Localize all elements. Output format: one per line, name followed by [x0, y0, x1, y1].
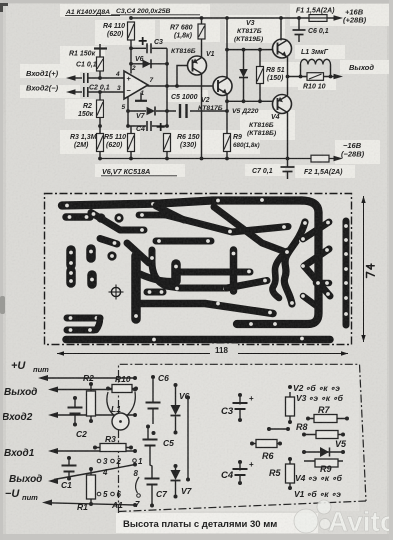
wire	[239, 409, 241, 418]
wire	[131, 47, 146, 49]
wire	[90, 469, 92, 504]
pcb trace plus vertical	[230, 250, 238, 291]
pcb trace oval1	[66, 250, 76, 265]
junction	[225, 48, 229, 52]
R9 leads	[304, 460, 343, 462]
wire C6 col	[151, 375, 155, 379]
junction	[129, 16, 133, 20]
V5 leads	[304, 451, 343, 453]
resistor R10 body	[112, 385, 132, 393]
capacitor C5	[143, 439, 158, 441]
pcb trace oval5	[171, 264, 181, 281]
fuse F2	[311, 155, 329, 162]
wire R1 top	[99, 44, 101, 57]
junction	[225, 109, 229, 113]
wire	[288, 76, 308, 78]
junction	[299, 75, 303, 79]
wire	[131, 63, 167, 65]
wire L1 left	[300, 65, 302, 77]
wire	[108, 388, 136, 390]
wire	[54, 414, 135, 416]
capacitor C2	[84, 87, 88, 97]
resistor R3 body	[100, 444, 126, 452]
junction	[129, 157, 133, 161]
caption band	[116, 513, 318, 533]
wire Vyhod2	[48, 478, 58, 484]
junction	[286, 75, 290, 79]
wire	[201, 39, 203, 57]
junction	[98, 157, 102, 161]
junction	[286, 157, 290, 161]
wire	[128, 111, 146, 126]
wire	[201, 18, 203, 24]
pcb trace barB	[156, 238, 211, 245]
capacitor C1	[84, 73, 88, 83]
wire	[287, 57, 289, 77]
resistor R9	[224, 134, 231, 152]
pcb trace top bar	[62, 201, 303, 206]
wire	[99, 92, 101, 100]
junction	[165, 62, 169, 66]
wire -Upit	[42, 500, 52, 506]
wire	[166, 48, 168, 126]
wire	[99, 71, 101, 78]
junction	[165, 157, 169, 161]
wire Vhod2	[48, 412, 58, 418]
wire	[54, 389, 135, 391]
wire	[227, 49, 273, 51]
resistor R6 body	[256, 440, 277, 448]
capacitor C4	[147, 119, 165, 136]
junction	[98, 76, 102, 80]
pcb panel background	[46, 195, 350, 344]
pcb trace oval4	[87, 275, 97, 284]
resistor R9 body	[315, 459, 338, 467]
C3 column	[238, 393, 242, 397]
wire	[68, 460, 70, 467]
resistor R1	[97, 57, 104, 71]
resistor R7 body	[314, 415, 337, 423]
wire	[166, 152, 168, 159]
common bar	[94, 47, 107, 49]
wire input2b	[88, 91, 124, 93]
pcb trace snake1	[284, 222, 305, 304]
wire	[130, 40, 132, 74]
wire top rail	[131, 17, 335, 19]
wire	[190, 110, 227, 112]
junction	[242, 48, 246, 52]
resistor R7	[198, 24, 205, 39]
resistor R4	[128, 22, 135, 40]
wire	[74, 400, 76, 409]
wire	[152, 379, 154, 404]
wire	[226, 18, 228, 78]
long wire	[186, 396, 190, 400]
resistor R5 body	[286, 464, 295, 483]
wire bottom rail	[100, 158, 335, 160]
pcb trace chev up	[303, 222, 329, 239]
left edge blob	[0, 296, 5, 314]
wire C6 stub	[298, 18, 300, 30]
wire C5 top	[147, 428, 149, 441]
pcb trace snake2	[272, 251, 287, 298]
wire	[90, 384, 92, 421]
junction	[200, 157, 204, 161]
junction	[165, 109, 169, 113]
wire	[287, 113, 289, 159]
wire	[44, 377, 135, 379]
resistor R6	[164, 134, 171, 152]
board outline border	[119, 364, 367, 513]
resistor R3	[97, 134, 104, 152]
wire	[54, 465, 135, 480]
capacitor C5	[179, 104, 181, 118]
junction	[225, 99, 229, 103]
C1 column	[67, 456, 71, 460]
junction	[297, 16, 301, 20]
wire	[239, 475, 241, 481]
C2 column	[73, 396, 77, 400]
board panel background	[119, 365, 359, 511]
R5 leads	[289, 459, 291, 488]
pcb trace chev big	[304, 249, 330, 296]
junction	[129, 46, 133, 50]
pcb trace stub	[316, 280, 329, 287]
pcb trace row2r	[139, 212, 166, 219]
R7 leads	[308, 418, 347, 420]
junction	[258, 99, 262, 103]
pcb trace H288	[152, 250, 227, 288]
pcb trace diag2	[91, 213, 144, 231]
junction	[242, 99, 246, 103]
junction	[98, 124, 102, 128]
wire	[187, 399, 189, 478]
pcb trace right frame	[237, 201, 319, 325]
wire +Upit	[38, 375, 48, 381]
V6 column	[174, 383, 178, 387]
pcb trace sweep	[214, 207, 283, 251]
resistor R2	[97, 100, 104, 118]
capacitor C3	[233, 402, 248, 404]
wire C5-C7	[150, 446, 152, 479]
junction	[279, 16, 283, 20]
wire Vhod1	[48, 448, 58, 454]
wire C7 bottom	[287, 172, 289, 180]
junction	[225, 16, 229, 20]
pcb trace H303	[137, 304, 273, 314]
wire	[48, 503, 135, 505]
wire	[68, 472, 70, 478]
pcb trace diag3	[127, 243, 149, 263]
pcb trace oval3	[86, 249, 96, 258]
wire V5 top	[243, 50, 245, 69]
wire	[287, 77, 289, 96]
wire	[226, 152, 228, 159]
transistor V3 KT817B	[273, 39, 292, 58]
pcb pad	[114, 213, 123, 222]
wire V5 bottom	[243, 78, 245, 102]
wire	[175, 387, 177, 405]
transistor V2 KT817B	[213, 77, 232, 96]
pcb trace nub	[100, 239, 117, 245]
wire	[239, 397, 241, 405]
R8 leads	[304, 434, 343, 436]
wire C7 bottom	[151, 485, 153, 505]
wire	[152, 409, 154, 425]
label V2 pins	[288, 385, 292, 389]
corner mark	[0, 3, 8, 12]
wire	[95, 447, 131, 449]
wire C7 stub	[287, 159, 289, 167]
resistor R8 body	[316, 431, 338, 439]
resistor R5	[128, 134, 135, 152]
junction	[165, 124, 169, 128]
wire Vyhod1	[48, 387, 58, 393]
wire	[226, 95, 228, 134]
wire	[128, 110, 146, 112]
transistor V1 KT816B	[188, 56, 207, 75]
resistor R2 body	[87, 391, 96, 416]
wire	[54, 450, 135, 452]
pcb trace cshape link	[96, 318, 100, 330]
wire	[99, 152, 101, 159]
junction	[129, 62, 133, 66]
pcb trace far right	[343, 221, 350, 325]
junction	[165, 84, 169, 88]
dimension 74	[363, 196, 365, 342]
wire	[177, 66, 188, 87]
capacitor C1	[62, 465, 77, 467]
pcb trace cshape bottom	[67, 327, 94, 334]
page edge shading	[0, 0, 393, 3]
chip A1 pins	[97, 459, 101, 463]
wire	[175, 481, 177, 495]
pcb trace bigvert	[131, 256, 141, 319]
wire	[280, 18, 282, 41]
wire	[269, 428, 288, 430]
wire	[127, 97, 129, 112]
pcb trace arm	[140, 274, 176, 281]
wire	[130, 126, 132, 134]
wire	[152, 47, 167, 49]
junction	[329, 75, 333, 79]
diode V7	[147, 107, 156, 116]
fuse F1	[309, 15, 327, 22]
pcb outline border	[45, 194, 352, 345]
junction	[225, 157, 229, 161]
wire	[289, 392, 291, 422]
capacitor C4	[233, 468, 248, 470]
resistor R1 body	[87, 475, 96, 499]
junction	[98, 90, 102, 94]
pcb crosshair mark	[111, 287, 120, 296]
capacitor C3	[138, 33, 151, 53]
op-amp A1	[124, 71, 148, 99]
pcb trace oval2	[66, 271, 76, 283]
capacitor C6	[146, 402, 161, 404]
pcb pad	[96, 213, 105, 222]
dimension 118	[57, 353, 348, 355]
pcb trace H272	[177, 269, 250, 276]
resistor R10	[307, 73, 324, 81]
capacitor C7	[145, 478, 160, 480]
pcb trace bottom rail	[66, 336, 330, 344]
wire	[130, 152, 132, 159]
wire	[140, 93, 142, 101]
wire	[239, 464, 241, 471]
capacitor C2	[68, 407, 83, 409]
wire	[74, 414, 76, 424]
pcb trace cshape top	[67, 315, 100, 322]
wire R8 top	[259, 50, 261, 67]
wire C6 bottom	[298, 35, 300, 43]
wire	[324, 76, 337, 78]
pcb pad	[107, 251, 116, 260]
wire input1b	[88, 77, 124, 79]
diode V6	[143, 59, 152, 68]
watermark logo circles	[294, 500, 331, 533]
wire	[175, 417, 177, 432]
diode V7	[171, 470, 181, 480]
resistor R8	[257, 67, 264, 84]
wire L1 right	[330, 65, 332, 77]
pcb trace hub diag	[227, 281, 267, 289]
wire	[227, 100, 273, 102]
junction	[126, 109, 130, 113]
junction	[126, 124, 130, 128]
wire input1	[70, 77, 82, 79]
transistor V4 KT816B	[273, 95, 292, 114]
pcb trace chev low	[303, 296, 318, 307]
V7 column	[174, 464, 178, 468]
C4 column	[238, 460, 242, 464]
wire	[156, 110, 176, 112]
wire input2	[70, 91, 82, 93]
resistor R4v body	[286, 397, 295, 416]
wire R8 bottom	[259, 84, 261, 102]
junction	[258, 48, 262, 52]
wire	[201, 74, 203, 159]
junction	[175, 84, 179, 88]
wire	[152, 125, 167, 127]
wire	[99, 118, 101, 134]
diode V6	[171, 405, 181, 415]
inductor L1	[112, 413, 129, 430]
wire	[175, 468, 177, 470]
pcb trace diag1	[156, 206, 184, 220]
R6 leads	[252, 443, 280, 445]
pcb trace zigzag	[162, 214, 288, 232]
pcb trace shortbar	[147, 289, 163, 296]
pcb trace row2	[66, 213, 90, 221]
wire	[148, 85, 214, 86]
junction	[200, 16, 204, 20]
diode V5	[239, 69, 248, 78]
